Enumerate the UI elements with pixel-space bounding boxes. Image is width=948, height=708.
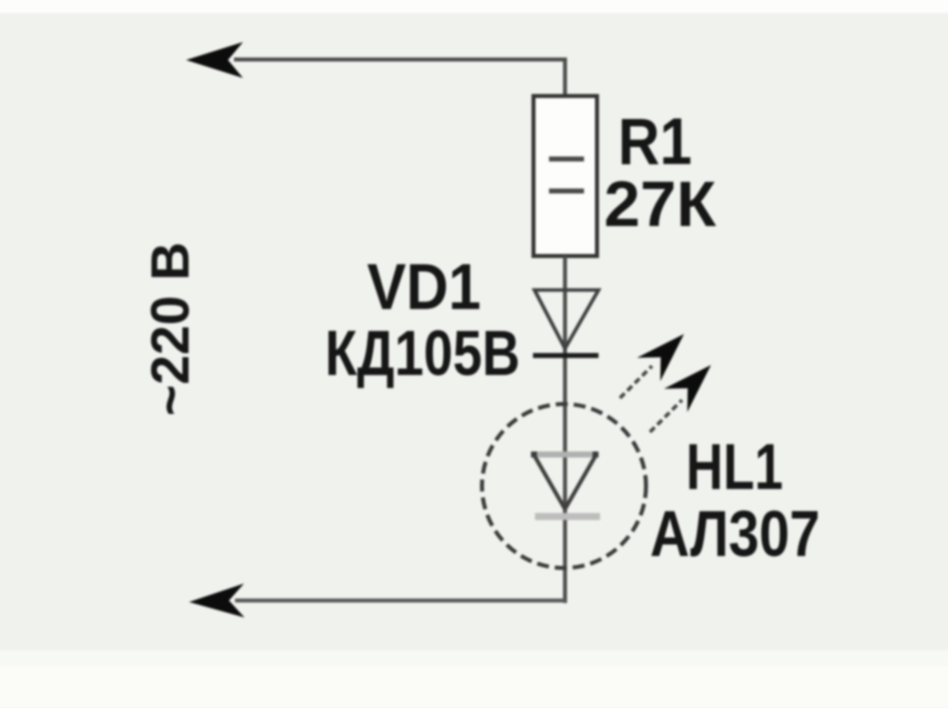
svg-text:КД105В: КД105В: [325, 317, 520, 389]
svg-text:VD1: VD1: [367, 250, 481, 323]
svg-text:HL1: HL1: [686, 430, 783, 503]
svg-text:R1: R1: [618, 104, 692, 178]
svg-text:~220 В: ~220 В: [141, 242, 201, 416]
svg-text:АЛ307: АЛ307: [650, 497, 820, 570]
svg-text:27К: 27К: [604, 168, 717, 240]
